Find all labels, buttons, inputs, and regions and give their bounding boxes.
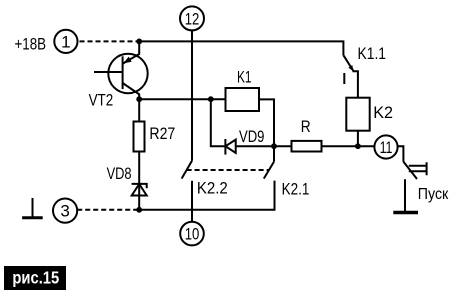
node 1 terminal circle xyxy=(54,30,77,53)
wire K1 right lead down xyxy=(259,99,274,146)
node junction dot K1 left xyxy=(208,96,214,102)
dashed mechanical link K2.2 K2.1 xyxy=(187,169,269,171)
wire from node 12 down to contact K2.2 xyxy=(191,30,193,160)
push button Пуск blade xyxy=(403,162,417,179)
wire K1.1 to K2 top xyxy=(353,71,358,97)
svg-text:K1.1: K1.1 xyxy=(358,45,386,64)
label K2.2 xyxy=(197,179,228,198)
node junction dot collector xyxy=(136,96,142,102)
label VD9 xyxy=(239,127,264,146)
label node 10 xyxy=(185,225,200,244)
svg-text:VD8: VD8 xyxy=(107,164,132,183)
wire push button to ground xyxy=(404,179,406,211)
svg-text:K2: K2 xyxy=(373,103,393,122)
wire emitter lead xyxy=(123,41,139,63)
relay coil K1 xyxy=(226,88,260,111)
label Pusk xyxy=(418,186,449,203)
svg-text:+18В: +18В xyxy=(15,35,47,54)
svg-text:3: 3 xyxy=(60,202,69,221)
svg-text:K1: K1 xyxy=(237,69,252,88)
ground symbol right xyxy=(393,211,418,215)
resistor R27 xyxy=(134,122,145,152)
wire R27 to VD8 and bottom rail xyxy=(138,152,140,210)
node junction dot K2 bottom xyxy=(355,143,361,149)
wire collector line to K1 xyxy=(139,98,225,100)
node junction dot VD9 R K2.1 xyxy=(271,143,277,149)
label node 11 xyxy=(380,139,393,157)
svg-text:рис.15: рис.15 xyxy=(12,268,59,288)
contact K2.1 blade xyxy=(264,146,274,178)
svg-text:K2.2: K2.2 xyxy=(197,179,228,198)
svg-text:1: 1 xyxy=(61,32,70,51)
wire collector to R27 xyxy=(138,99,140,121)
svg-text:10: 10 xyxy=(185,225,200,244)
label +18V xyxy=(15,35,47,54)
wire node 11 to push button xyxy=(398,146,404,161)
wire bottom rail to K2.1 xyxy=(139,181,274,210)
wire dashed from node 1 to emitter junction xyxy=(80,40,138,42)
svg-text:VD9: VD9 xyxy=(239,127,264,146)
node junction dot bottom rail xyxy=(136,207,142,213)
label K2 xyxy=(373,103,393,122)
wire dashed from node 3 to bottom junction xyxy=(77,209,137,211)
relay coil K2 xyxy=(346,98,369,131)
contact K2.2 blade xyxy=(182,161,192,179)
label VT2 xyxy=(89,91,114,110)
figure caption box xyxy=(4,266,66,290)
wire R to node 11 xyxy=(322,145,375,147)
svg-text:11: 11 xyxy=(380,139,393,157)
svg-text:12: 12 xyxy=(185,10,200,29)
diode VD8 zener xyxy=(132,184,147,188)
diode VD9 xyxy=(224,139,226,155)
label K1.1 xyxy=(358,45,386,64)
label R xyxy=(301,118,311,137)
wire VD9 branch left xyxy=(211,99,226,146)
label VD8 xyxy=(107,164,132,183)
svg-text:Пуск: Пуск xyxy=(418,186,449,203)
resistor R xyxy=(292,141,322,152)
push button plunger xyxy=(409,162,427,175)
label K1 xyxy=(237,69,252,88)
label K2.1 xyxy=(282,180,310,199)
wire K2 bottom to node 11 line xyxy=(357,131,359,147)
svg-text:K2.1: K2.1 xyxy=(282,180,310,199)
svg-text:VT2: VT2 xyxy=(89,91,114,110)
wire contact K2.2 to node 10 xyxy=(191,181,193,222)
node 12 terminal circle xyxy=(180,6,204,30)
svg-text:R27: R27 xyxy=(149,125,175,143)
label R27 xyxy=(149,125,175,143)
svg-text:R: R xyxy=(301,118,311,137)
node 3 terminal circle xyxy=(53,199,77,223)
wire VD9 to resistor R xyxy=(236,145,292,147)
node 10 terminal circle xyxy=(180,222,204,246)
label node 12 xyxy=(185,10,200,29)
node 11 terminal circle xyxy=(374,135,397,158)
node junction dot top rail xyxy=(136,39,142,45)
transistor VT2 xyxy=(108,54,147,93)
ground chassis symbol left xyxy=(32,198,34,217)
wire top rail from emitter junction to K1.1 xyxy=(139,41,343,55)
contact K1.1 blade xyxy=(343,55,353,71)
